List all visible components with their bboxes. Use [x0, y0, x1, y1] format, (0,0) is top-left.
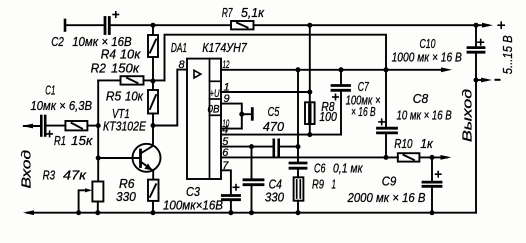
terminal bar at pins 9-10	[251, 109, 254, 120]
svg-text:C8: C8	[413, 91, 429, 106]
wire R4 top stub	[152, 25, 154, 35]
wire pin6 long output line	[221, 156, 398, 158]
plus C3	[233, 186, 240, 188]
svg-text:R4: R4	[101, 47, 116, 62]
junction pin1 wire / R8 / supply	[307, 90, 312, 95]
junction pin12 wire / feedback vertical	[384, 67, 389, 72]
wire pin9 to joint	[221, 104, 242, 129]
wire top rail left segment	[65, 24, 104, 26]
svg-text:8: 8	[179, 59, 186, 71]
svg-text:10мк × 6,3В: 10мк × 6,3В	[31, 98, 93, 113]
capacitor C1	[40, 116, 43, 136]
svg-text:× 16 В: × 16 В	[351, 104, 376, 119]
wire collector up	[152, 126, 154, 146]
svg-text:150к: 150к	[111, 61, 140, 76]
terminal arrow input lower (ground)	[23, 210, 34, 215]
capacitor C3	[222, 194, 239, 197]
junction ground rail / C9	[430, 210, 435, 215]
svg-text:Вход: Вход	[19, 150, 34, 189]
plus C10	[477, 41, 484, 43]
resistor R4	[148, 35, 158, 57]
wire C7 bottom stub	[340, 90, 342, 134]
plus C8	[378, 121, 385, 123]
wire R6 bottom stub	[152, 201, 154, 212]
junction R1 / bias column	[96, 123, 101, 128]
capacitor C5	[272, 140, 275, 156]
svg-text:Выход: Выход	[460, 89, 475, 142]
wire R10 right to output	[419, 156, 447, 158]
capacitor C9	[423, 181, 441, 184]
wire C9 bottom stub	[431, 186, 433, 212]
wire C9 top stub	[431, 157, 433, 182]
VT1 emitter diagonal	[141, 162, 152, 170]
wire C7 top stub	[340, 70, 342, 86]
wire R8 bottom stub	[309, 124, 311, 135]
svg-text:100мк×16В: 100мк×16В	[163, 198, 223, 213]
svg-text:1000 мк × 16 В: 1000 мк × 16 В	[392, 50, 463, 65]
capacitor C6	[290, 162, 306, 165]
wire pin5 left segment	[221, 146, 273, 148]
junction right edge / -terminal	[474, 78, 479, 83]
wire R2 right to over-top corner	[144, 79, 165, 81]
DA1 field divider 2	[210, 98, 222, 100]
wire supply vertical from top rail to R8	[309, 25, 311, 102]
svg-text:R1: R1	[54, 133, 66, 148]
svg-text:R7: R7	[222, 5, 233, 20]
DA1 amplifier triangle	[194, 70, 201, 78]
junction pin5 wire / zobel	[296, 144, 301, 149]
op-amp DA1 body	[187, 59, 221, 179]
junction ground rail / R6	[151, 210, 156, 215]
wire top rail middle segment	[109, 24, 231, 26]
plus C1	[46, 133, 53, 135]
DA1 internal divider vertical	[209, 59, 211, 179]
svg-text:10к: 10к	[120, 47, 141, 62]
capacitor C2	[104, 18, 107, 34]
capacitor C7	[332, 84, 350, 87]
wire R2 left to column	[98, 79, 120, 81]
label arrow for C10	[386, 69, 446, 71]
resistor R5	[148, 90, 158, 114]
svg-text:1: 1	[224, 82, 230, 94]
plus C7	[332, 96, 339, 98]
wire R3 bottom stub	[97, 202, 99, 213]
wire C4 bottom stub	[251, 185, 253, 213]
VT1 base bar	[139, 150, 142, 167]
capacitor C10	[468, 46, 484, 49]
minus supply	[495, 79, 501, 81]
svg-text:R10: R10	[394, 136, 413, 151]
plus and minus marks	[46, 11, 505, 191]
svg-text:4: 4	[222, 124, 228, 136]
svg-text:КТ3102Е: КТ3102Е	[103, 119, 146, 134]
transistor VT1 circle	[133, 144, 161, 172]
plus supply	[497, 24, 505, 26]
svg-text:1: 1	[332, 176, 337, 191]
svg-text:R5: R5	[106, 89, 122, 104]
svg-text:0В: 0В	[208, 104, 220, 116]
junction output line / C8	[384, 155, 389, 160]
wire R4 bottom stub	[152, 57, 154, 81]
wire pin4	[221, 134, 341, 136]
capacitor C8	[378, 127, 397, 130]
wire pin5 right segment	[279, 146, 298, 148]
junction R5 / VT1 collector / pin8 wire	[151, 123, 156, 128]
svg-text:9: 9	[224, 93, 230, 105]
svg-text:10к: 10к	[125, 89, 144, 104]
wire C8 bottom to pin6 line	[385, 133, 387, 158]
svg-text:+U: +U	[210, 88, 220, 100]
svg-text:R9: R9	[312, 176, 324, 191]
resistor R9	[294, 177, 304, 200]
wire bottom ground rail	[27, 212, 476, 214]
wire pin12	[221, 69, 386, 71]
wire input coupling	[24, 125, 41, 127]
junction ground rail / R3 wiper	[76, 210, 81, 215]
resistor R10	[398, 153, 420, 161]
junction top rail / C10 / +terminal	[474, 23, 479, 28]
wire C3 bottom stub	[230, 200, 232, 213]
terminal arrow input upper	[22, 124, 33, 129]
junction pin12 wire / zobel branch	[296, 67, 301, 72]
VT1 emitter arrowhead	[144, 163, 152, 170]
wire left bias column (R2 left down to R3)	[97, 80, 99, 181]
svg-text:2000 мк × 16 В: 2000 мк × 16 В	[347, 190, 426, 205]
resistor R8	[305, 102, 315, 124]
wire C10 top stub	[475, 25, 477, 47]
wire over-top feedback: up, across, down	[165, 35, 387, 127]
wire R3 wiper from bottom rail	[79, 190, 88, 212]
junction pin4 wire / R8	[307, 132, 312, 137]
DA1 field divider 3	[210, 114, 222, 116]
wire R9 bottom stub	[297, 201, 299, 213]
junction R4-R5-R2 node	[151, 79, 156, 84]
svg-text:5...15 В: 5...15 В	[500, 35, 515, 74]
resistor R1	[65, 121, 87, 130]
junction ground rail / C3	[228, 210, 233, 215]
svg-text:7: 7	[222, 160, 229, 172]
resistor R6	[148, 180, 159, 201]
svg-text:C1: C1	[45, 83, 55, 98]
junction pin5 wire / C4	[249, 144, 254, 149]
svg-text:12: 12	[223, 59, 230, 71]
svg-text:DA1: DA1	[171, 40, 187, 55]
svg-text:C6: C6	[314, 161, 326, 176]
svg-text:1к: 1к	[420, 136, 433, 151]
plus C9	[435, 173, 442, 175]
wire pin8 connection from collector node	[153, 70, 187, 126]
svg-text:330: 330	[265, 189, 285, 204]
svg-text:330: 330	[116, 189, 136, 204]
terminal arrow supply minus	[481, 78, 492, 83]
wire supply minus arrow line	[476, 79, 487, 81]
wire C6 to R9	[297, 168, 299, 177]
wire zobel vertical (output to C6)	[297, 70, 299, 163]
R3 wiper arrowhead	[85, 188, 92, 192]
resistor R3 (trimmer)	[92, 182, 103, 202]
junction ground rail / R3	[95, 210, 100, 215]
DA1 field divider 1	[210, 80, 222, 82]
svg-text:10 мк × 16 В: 10 мк × 16 В	[397, 107, 452, 122]
wire pin10	[221, 128, 242, 130]
svg-text:100: 100	[319, 109, 337, 124]
wire supply plus arrow line	[476, 24, 488, 26]
wire C1 to R1	[45, 125, 65, 127]
plus C2	[112, 14, 119, 16]
svg-text:47к: 47к	[63, 168, 87, 183]
svg-text:470: 470	[263, 119, 285, 134]
wire right edge vertical	[475, 52, 477, 213]
terminal arrow output	[441, 155, 452, 160]
node terminal bar at top-left rail end	[64, 20, 67, 31]
wire R1 right	[87, 125, 98, 127]
wire pins9-10 stub to terminal bar	[242, 113, 251, 115]
svg-text:R2: R2	[91, 61, 107, 76]
wire pin7	[221, 170, 231, 194]
wire top rail right segment	[254, 24, 479, 26]
wire base wire	[98, 157, 140, 159]
wire R5 stubs	[152, 81, 154, 90]
wire pin1	[221, 91, 310, 93]
svg-text:К174УН7: К174УН7	[202, 40, 247, 55]
junction ground rail / C4	[249, 210, 254, 215]
junction base wire / bias column	[96, 156, 101, 161]
junction pins 9-10 tie	[239, 112, 244, 117]
svg-text:C2: C2	[51, 34, 64, 49]
svg-text:5,1к: 5,1к	[241, 5, 265, 20]
junction top rail / supply feed	[307, 23, 312, 28]
svg-text:C5: C5	[268, 104, 280, 119]
junction pin12 wire / C7	[339, 67, 344, 72]
wire C4 vertical	[251, 147, 253, 180]
svg-text:R3: R3	[43, 168, 56, 183]
terminal arrow supply plus	[482, 23, 493, 28]
junction top rail / R4	[151, 23, 156, 28]
wire emitter down	[152, 170, 154, 179]
svg-text:C9: C9	[382, 174, 397, 189]
capacitor C4	[244, 178, 263, 181]
junction output line / C9	[430, 155, 435, 160]
svg-text:6: 6	[222, 147, 229, 159]
svg-text:0,1 мк: 0,1 мк	[333, 161, 363, 176]
VT1 collector diagonal	[141, 146, 154, 154]
resistor R2	[121, 76, 144, 84]
svg-text:15к: 15к	[71, 133, 93, 148]
junction ground rail / R9	[296, 210, 301, 215]
resistor R7	[231, 21, 254, 29]
